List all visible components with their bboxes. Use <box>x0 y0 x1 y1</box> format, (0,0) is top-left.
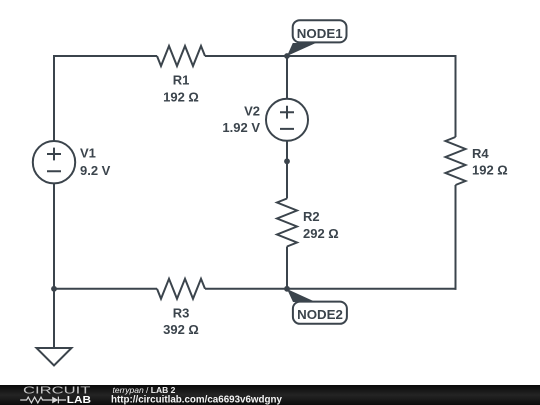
svg-text:LAB: LAB <box>67 395 91 405</box>
svg-text:R1: R1 <box>173 73 190 88</box>
node NODE2 callout tail <box>287 289 316 302</box>
node NODE1 callout tail <box>287 43 316 56</box>
wire: right vertical top (corner to R4) <box>455 55 457 137</box>
label R1 value <box>163 73 199 105</box>
resistor R3 <box>157 279 205 299</box>
node NODE1 label box <box>293 20 347 42</box>
ground <box>37 348 72 366</box>
svg-text:V1: V1 <box>80 146 96 161</box>
svg-text:http://circuitlab.com/ca6693v6: http://circuitlab.com/ca6693v6wdgny <box>111 394 283 405</box>
label R4 value <box>472 146 508 178</box>
resistor R2 <box>277 199 297 247</box>
wire: right vertical bottom (R4 to bottom-right corner) <box>455 185 457 290</box>
svg-text:192 Ω: 192 Ω <box>472 163 508 178</box>
svg-text:1.92 V: 1.92 V <box>222 120 260 135</box>
svg-text:R3: R3 <box>173 306 190 321</box>
svg-text:292 Ω: 292 Ω <box>303 226 339 241</box>
svg-text:R4: R4 <box>472 146 489 161</box>
footer logo diode triangle <box>52 397 58 404</box>
voltage source V2 <box>266 99 308 141</box>
footer logo resistor zigzag + diode <box>20 397 66 404</box>
svg-text:NODE2: NODE2 <box>297 307 343 322</box>
svg-text:9.2 V: 9.2 V <box>80 163 111 178</box>
wire: ground stem <box>53 289 55 348</box>
wire: R2 to bottom wire <box>286 247 288 289</box>
label R3 value <box>163 306 199 338</box>
junction dot V2 minus terminal <box>284 158 290 164</box>
footer bar <box>0 385 540 405</box>
label V1 value <box>80 146 111 179</box>
svg-text:192 Ω: 192 Ω <box>163 90 199 105</box>
voltage source V1 <box>33 141 75 183</box>
svg-text:R2: R2 <box>303 209 320 224</box>
wire: bottom horizontal right (corner to R3) <box>205 288 457 290</box>
junction dot node A (NODE1) <box>284 53 290 59</box>
wire: top horizontal (R1 to top-right corner) <box>205 55 457 57</box>
label V2 value <box>222 104 260 136</box>
node NODE2 label box <box>293 302 347 324</box>
wire: left vertical top (V1 top to top-left corner) <box>53 55 55 141</box>
wire: bottom horizontal left (R3 to ground junction) <box>54 288 157 290</box>
svg-text:392 Ω: 392 Ω <box>163 322 199 337</box>
junction dot ground <box>51 286 57 292</box>
label R2 value <box>303 209 339 241</box>
junction dot node B (NODE2) <box>284 286 290 292</box>
wire: middle vertical top (NODE1 to V2) <box>286 56 288 99</box>
resistor R4 <box>446 137 466 185</box>
wire: top horizontal left (corner to R1) <box>53 55 157 57</box>
wire: V2 bottom to R2 <box>286 140 288 199</box>
svg-text:V2: V2 <box>244 104 260 119</box>
wire: left vertical bottom (V1 bottom to bottom wire) <box>53 183 55 290</box>
svg-text:NODE1: NODE1 <box>297 26 343 41</box>
resistor R1 <box>157 46 205 66</box>
